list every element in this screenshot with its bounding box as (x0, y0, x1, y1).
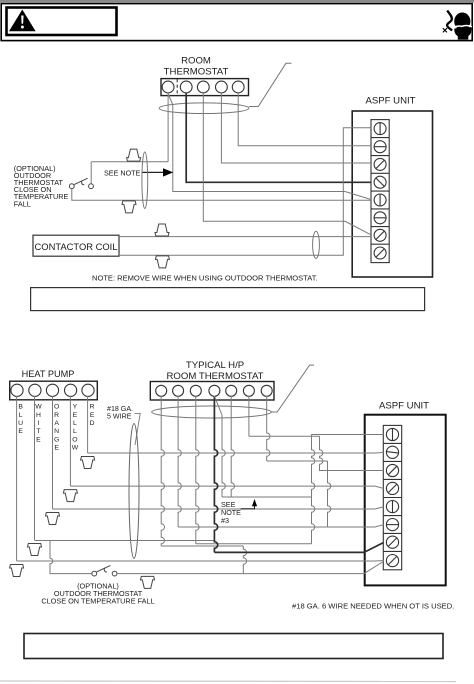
svg-text:#18 GA. 6 WIRE NEEDED WHEN OT: #18 GA. 6 WIRE NEEDED WHEN OT IS USED. (292, 602, 454, 611)
wire: t7 to riser3 (267, 460, 328, 462)
svg-text:ORANGE: ORANGE (54, 404, 59, 452)
#18ga leader (135, 413, 141, 445)
wirenut (coil top) (155, 224, 169, 236)
wire: contactor coil bottom to T1 (119, 128, 371, 256)
shock hazard icon (447, 11, 452, 31)
warning triangle icon (9, 10, 36, 32)
hp thermostat terminals (156, 385, 273, 396)
wire: t4 to T7 (thick) (214, 543, 383, 553)
wirenut (orange) (46, 513, 60, 525)
outdoor thermostat label (upper) (14, 164, 69, 209)
wire: see-note-3 line (222, 496, 312, 498)
svg-text:RED: RED (90, 404, 95, 427)
ASPF unit box (upper) (352, 111, 432, 277)
wire: wirenut junction line (91, 161, 168, 163)
wire: OT switch line to T8 (117, 561, 384, 573)
see note arrow (142, 171, 164, 173)
white wire vertical (34, 396, 36, 540)
lower cable ellipse (152, 406, 272, 418)
wire: thermostat-5 to T2 (238, 93, 371, 146)
svg-text:5 WIRE: 5 WIRE (107, 412, 132, 420)
lower cable leader line (271, 365, 314, 412)
hp-stat wire 1 (161, 396, 164, 546)
hp-stat wire 4b (OT, see note 3) (214, 396, 222, 415)
upper-left cable ellipse (142, 152, 148, 208)
OT switch contact right (89, 184, 94, 189)
hp-stat wire 7 (267, 396, 270, 461)
warning inner box (7, 8, 117, 36)
hp-stat wire 2 (178, 396, 181, 527)
thermostat strip divider (dashed) (176, 79, 178, 95)
wire: thermostat-4 to T3 (221, 93, 371, 163)
upper cable ellipse (159, 103, 249, 114)
OT switch contact left (lower) (92, 571, 97, 576)
svg-text:CONTACTOR COIL: CONTACTOR COIL (35, 241, 118, 252)
red wire vertical (87, 396, 89, 453)
ASPF terminals (upper) T1-T8 (371, 123, 389, 259)
wirenut (white) (28, 544, 42, 556)
blue wire vertical (16, 396, 18, 561)
orange wire vertical (52, 396, 54, 509)
wirenut (upper junction) (127, 149, 141, 161)
wire: OT switch to wirenut line (90, 162, 92, 184)
riser 1 to T1 (312, 434, 384, 436)
yellow wire vertical (69, 396, 71, 486)
riser 3 (328, 461, 331, 527)
ASPF terminal strip (upper) (371, 120, 389, 263)
wirenut (yellow) (63, 490, 77, 502)
optional outdoor thermostat label (lower) (41, 582, 154, 606)
svg-text:FALL: FALL (14, 199, 31, 208)
wirenut (lower OT) (141, 576, 155, 588)
svg-text:BLUE: BLUE (18, 404, 23, 435)
wire: yellow to T4 (70, 486, 383, 488)
page top edge (0, 0, 474, 3)
hp-stat wire 5 (231, 396, 234, 497)
ASPF terminals (lower) T1-T8 (383, 428, 401, 566)
coil cable ellipse (313, 231, 320, 258)
OT switch lever (74, 178, 87, 184)
middle caption box (31, 288, 425, 311)
wire: blue to T8 (17, 560, 384, 562)
wirenut (below OT wire) (122, 201, 136, 213)
wire: contactor coil top to T7 (119, 236, 371, 238)
OT switch contact right (lower) (112, 571, 117, 576)
see note 3 label (221, 500, 241, 525)
ASPF terminal strip (lower) (383, 425, 401, 569)
svg-text:YELLOW: YELLOW (72, 404, 79, 452)
OT switch contact left (69, 184, 74, 189)
svg-text:ASPF UNIT: ASPF UNIT (365, 96, 415, 107)
wire: thermostat-2 to T4 (186, 93, 371, 182)
room thermostat terminal strip (161, 79, 249, 96)
wirenut (coil bottom) (155, 256, 169, 268)
wire: thermostat-1 to wirenut (167, 93, 169, 162)
room thermostat terminals (162, 81, 244, 93)
svg-text:CLOSE ON TEMPERATURE FALL: CLOSE ON TEMPERATURE FALL (41, 597, 154, 606)
ASPF unit box (lower) (365, 415, 446, 586)
svg-text:ROOM THERMOSTAT: ROOM THERMOSTAT (167, 371, 264, 382)
contactor coil box (33, 235, 119, 256)
wirenut (blue) (10, 565, 24, 577)
svg-text:ROOM: ROOM (181, 56, 211, 67)
wire: t2 to T6 (178, 525, 383, 527)
svg-text:WHITE: WHITE (35, 404, 42, 444)
wire: red to T2 (88, 451, 384, 454)
svg-text:THERMOSTAT: THERMOSTAT (164, 67, 229, 78)
wire: OT switch to T5 (72, 189, 371, 201)
wire: t1 jog to OT line (161, 545, 243, 547)
hp-stat wire 6 (248, 396, 250, 436)
wire: t6 to riser2 (249, 435, 320, 437)
heat pump terminal strip (10, 381, 98, 400)
lower big cable ellipse (129, 424, 139, 559)
hp-stat wire 3 (196, 396, 199, 544)
see note 3 arrow (241, 506, 255, 509)
bottom caption box (24, 634, 443, 659)
wire: orange to T5 (53, 507, 384, 509)
wire: thermostat-3 to T7 (203, 93, 371, 235)
wirenut (red) (81, 457, 95, 469)
svg-text:NOTE: REMOVE WIRE WHEN USING O: NOTE: REMOVE WIRE WHEN USING OUTDOOR THE… (92, 274, 318, 283)
svg-text:ASPF UNIT: ASPF UNIT (379, 401, 429, 412)
wire: t3 horizontal to riser (196, 543, 312, 545)
page bottom artifact (0, 680, 456, 683)
wire: thermostat-1 branch to T5 (remove w/ OT) (168, 94, 371, 200)
hp-stat wire 4 (thick W) (214, 396, 217, 552)
wire: white to t4 junction (35, 540, 215, 542)
riser 2 to T3 (320, 436, 384, 470)
hp room thermostat strip (150, 382, 274, 401)
svg-text:HEAT PUMP: HEAT PUMP (22, 369, 75, 379)
wire: OT branch from white line (50, 541, 92, 574)
warning banner box (1, 4, 472, 41)
heat pump terminals (11, 384, 94, 396)
svg-text:SEE NOTE: SEE NOTE (104, 169, 141, 178)
svg-text:TYPICAL H/P: TYPICAL H/P (186, 360, 244, 371)
upper cable leader line (249, 63, 292, 106)
svg-text:#3: #3 (221, 516, 229, 525)
OT switch lever (lower) (97, 565, 111, 572)
